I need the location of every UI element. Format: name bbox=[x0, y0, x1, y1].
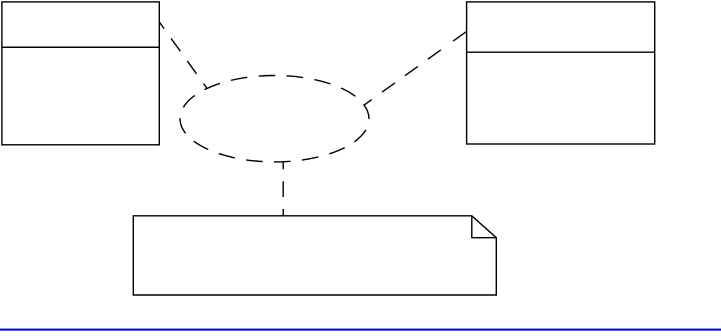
note fold bbox=[472, 216, 497, 238]
class box left bbox=[2, 2, 159, 145]
note outline bbox=[133, 216, 496, 295]
blue bottom rule bbox=[0, 329, 721, 331]
dashed ellipse bbox=[180, 76, 369, 162]
dashed connector ellipse to right box bbox=[364, 31, 467, 105]
dashed connector left box to ellipse bbox=[160, 22, 208, 89]
class box right divider bbox=[467, 51, 655, 53]
dashed connector ellipse to note bbox=[282, 162, 284, 216]
class box right bbox=[467, 2, 655, 144]
class box left divider bbox=[2, 46, 159, 48]
